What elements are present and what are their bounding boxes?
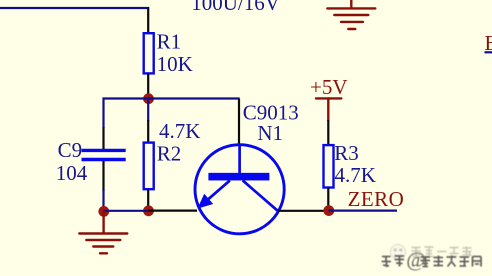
svg-text:R1: R1	[157, 30, 182, 54]
node C junction	[98, 206, 109, 217]
wire base vertical	[238, 99, 240, 145]
wire node C to node B	[104, 210, 149, 212]
svg-text:R3: R3	[334, 141, 359, 165]
ground top	[327, 0, 375, 29]
resistor R1 pin 2	[147, 74, 149, 99]
svg-text:ZERO: ZERO	[348, 187, 405, 211]
wire node A to C9	[104, 99, 149, 128]
resistor R2	[144, 143, 154, 190]
capacitor C9 pin 1	[102, 127, 104, 149]
label C9	[58, 138, 83, 162]
capacitor C9 pin 2	[102, 161, 104, 191]
svg-text:N1: N1	[257, 121, 283, 145]
ground bottom	[79, 211, 127, 253]
svg-text:4.7K: 4.7K	[159, 119, 200, 143]
resistor R3	[324, 145, 334, 187]
svg-text:@: @	[406, 248, 425, 272]
node A junction	[143, 93, 154, 104]
power +5V label	[310, 75, 348, 99]
transistor N1	[195, 144, 284, 234]
resistor R1	[144, 33, 154, 73]
resistor R1 pin 1	[147, 7, 149, 32]
resistor R3 pin 2	[327, 188, 329, 211]
svg-text:4.7K: 4.7K	[335, 163, 376, 187]
svg-text:+5V: +5V	[310, 75, 348, 99]
label C9013	[243, 101, 299, 125]
resistor R2 pin 1	[147, 120, 149, 142]
value 104	[56, 161, 88, 185]
label R1	[157, 30, 182, 54]
wire node B to emitter	[148, 210, 197, 212]
value 100U/16V (clipped at top)	[191, 0, 280, 15]
watermark text line 1	[412, 247, 472, 258]
wire right edge stub	[485, 51, 492, 53]
value 4.7K of R2	[159, 119, 200, 143]
value 10K	[157, 52, 193, 76]
svg-text:104: 104	[56, 161, 88, 185]
value 4.7K of R3	[335, 163, 376, 187]
wire node A down stub	[147, 99, 149, 122]
net label ZERO	[348, 187, 405, 211]
power +5V bar symbol	[316, 98, 341, 120]
svg-text:C9: C9	[58, 138, 83, 162]
wire top horizontal	[0, 7, 149, 9]
watermark halo line 2	[382, 248, 482, 272]
label R3	[334, 141, 359, 165]
wire node A to base corner	[148, 97, 240, 99]
net label fragment right edge	[485, 31, 492, 55]
resistor R3 pin 1	[327, 120, 329, 144]
wire C9 to node C	[102, 190, 104, 211]
svg-text:100U/16V: 100U/16V	[191, 0, 280, 15]
wire collector to node D	[278, 210, 329, 212]
designator N1	[257, 121, 283, 145]
resistor R2 pin 2	[147, 190, 149, 211]
label R2	[157, 141, 182, 165]
node B junction	[143, 205, 154, 216]
svg-text:R2: R2	[157, 141, 182, 165]
wire node D to right ZERO net	[329, 210, 397, 212]
svg-text:10K: 10K	[157, 52, 193, 76]
watermark logo circle	[391, 245, 406, 260]
watermark text line 2	[382, 248, 482, 272]
node D junction	[323, 205, 334, 216]
capacitor C9	[82, 150, 126, 159]
